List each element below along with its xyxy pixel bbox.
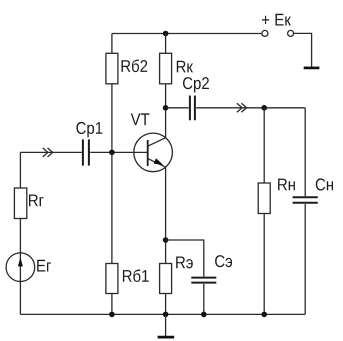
ground (bottom) — [158, 336, 175, 339]
wire: right column down to Сн — [304, 108, 306, 196]
resistor Rг — [14, 188, 26, 219]
wire: bottom rail — [20, 313, 305, 315]
wire: Rэ to bottom rail — [165, 294, 167, 315]
wire: from right terminal down to ground — [294, 33, 312, 66]
resistor Rб1 — [106, 264, 118, 294]
resistor Rэ — [160, 264, 172, 294]
wire: ground stem bottom — [165, 314, 167, 336]
label + Ек — [262, 16, 269, 24]
wire: collector to Cp2 — [166, 107, 189, 109]
source Ег — [6, 253, 51, 282]
transistor VT — [131, 113, 173, 171]
node: output junction — [261, 105, 267, 111]
terminal circle right of Ек — [288, 30, 294, 36]
wire: base node to R61 and R61 to bottom rail — [111, 152, 113, 314]
output arrows — [237, 103, 247, 112]
ground (top right) — [304, 67, 320, 70]
wire: Cp2 to right column — [196, 107, 305, 109]
wire: R62 column top — [111, 34, 113, 54]
node: Сэ bottom — [201, 312, 207, 318]
wire: Сэ to bottom rail — [203, 284, 205, 315]
wire: Rк bottom to collector — [165, 84, 167, 138]
resistor Rб2 — [106, 53, 118, 84]
wire: top supply rail — [112, 33, 262, 35]
node: Rн bottom — [261, 312, 267, 318]
wire: Rк column top — [165, 34, 167, 54]
wire: emitter node to Сэ — [166, 240, 204, 276]
node: emitter junction — [163, 237, 169, 243]
node: base junction — [109, 150, 115, 156]
wire: Сн to bottom rail — [304, 204, 306, 314]
terminal circle left of Ек — [262, 30, 268, 36]
wire: Rг through Ег to bottom rail — [19, 219, 21, 315]
wire: R62 bottom to base node — [111, 84, 113, 153]
input arrows — [43, 148, 53, 157]
wire: Rн column — [263, 108, 265, 315]
resistor Rн — [258, 183, 270, 214]
node: collector junction — [163, 105, 169, 111]
wire: input — [20, 151, 82, 153]
node: Rк top junction — [163, 31, 169, 37]
wire: Cp1 to base — [90, 151, 148, 153]
capacitor Ср2 — [190, 96, 195, 121]
wire: left column to Rг — [19, 152, 21, 188]
capacitor Ср1 — [83, 139, 89, 165]
capacitor Сэ — [191, 278, 216, 283]
node: R61 bottom — [109, 312, 115, 318]
node: Rэ bottom / ground — [163, 312, 169, 318]
capacitor Сн — [293, 197, 318, 203]
wire: emitter down to Rэ — [165, 167, 167, 263]
resistor Rк — [160, 53, 172, 84]
